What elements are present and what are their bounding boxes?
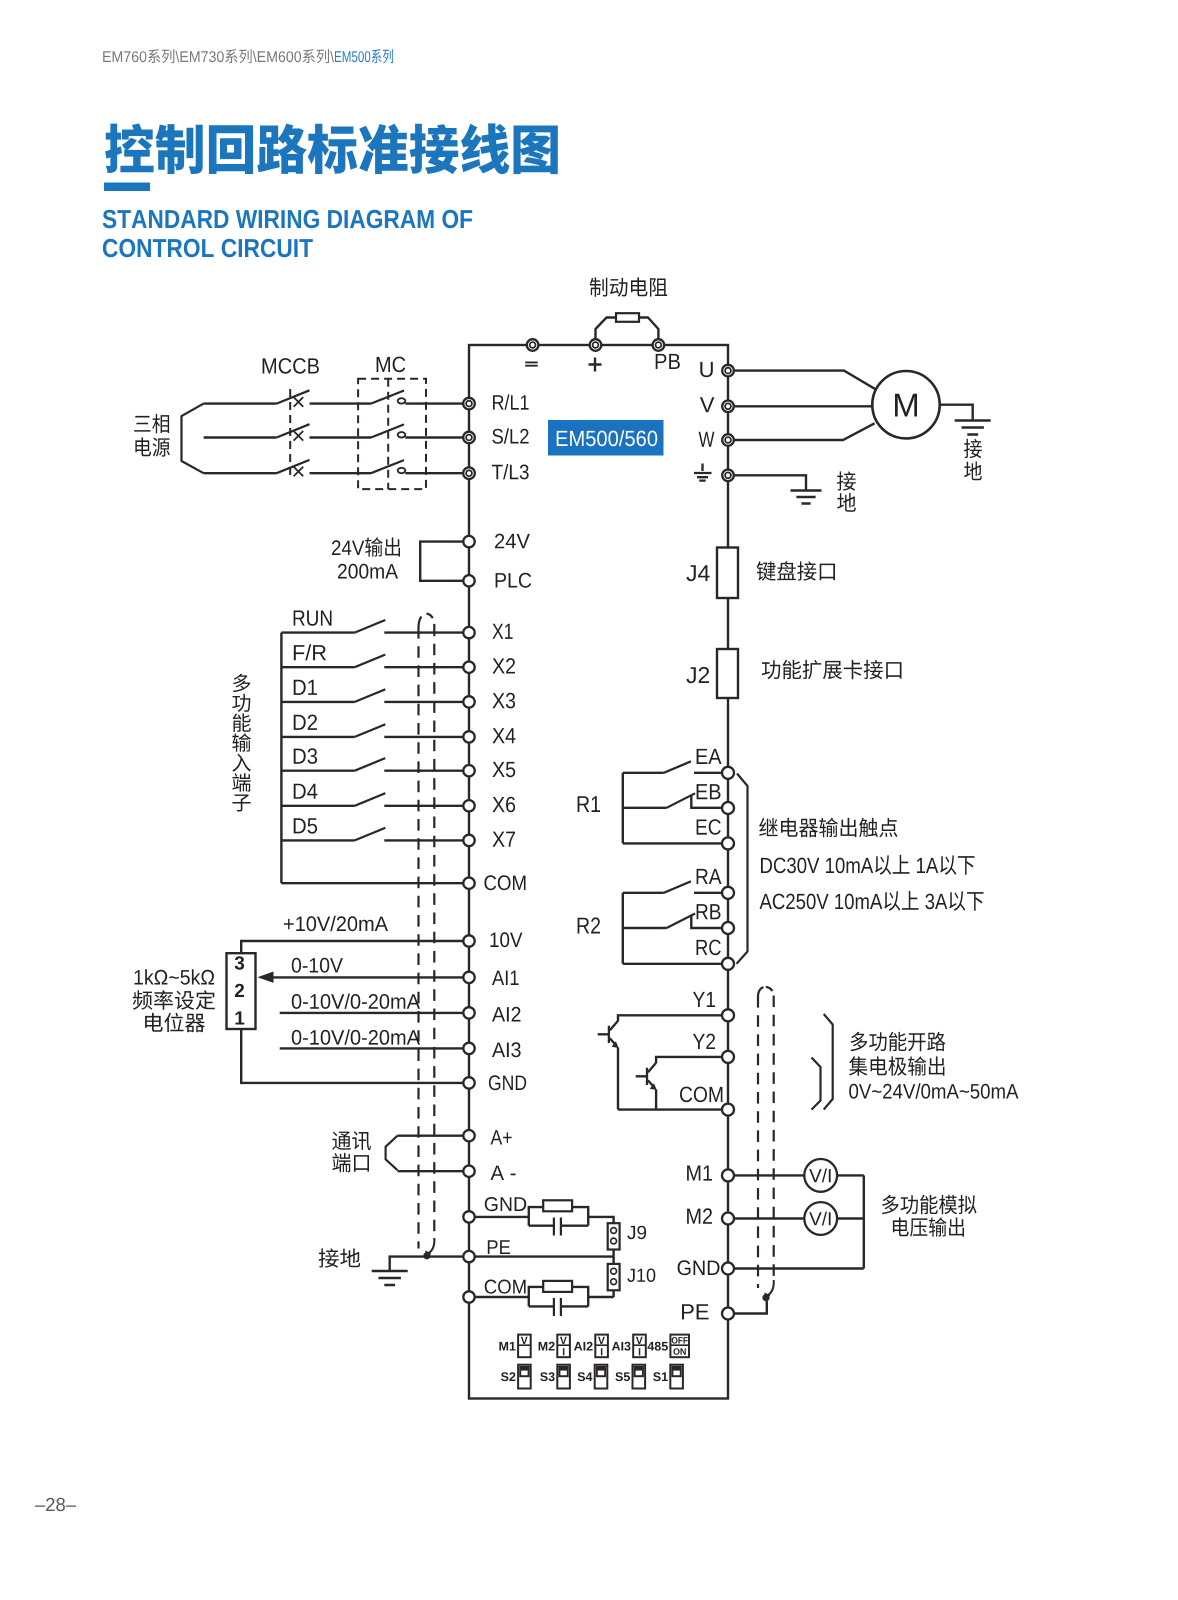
label X3 bbox=[492, 693, 515, 709]
terminal A- bbox=[463, 1166, 474, 1177]
label RUN bbox=[294, 611, 332, 626]
wire M1 to meter bbox=[734, 1174, 804, 1176]
switch D4 wire right bbox=[384, 805, 463, 807]
label D1 bbox=[294, 680, 317, 695]
subtitle line 2 bbox=[103, 239, 313, 257]
terminal PE right bbox=[722, 1308, 734, 1320]
terminal RC bbox=[722, 958, 734, 970]
keyboard port J4 bbox=[717, 548, 738, 599]
relay R1 common EC bbox=[623, 842, 722, 844]
wire Y2 to transistor Q2 bbox=[656, 1057, 722, 1063]
inverter enclosure box bbox=[469, 345, 728, 1399]
phase R MCCB breaker blade bbox=[277, 390, 310, 403]
wire motor to ground bbox=[940, 405, 973, 420]
terminal GND right bbox=[722, 1263, 734, 1275]
terminal U bbox=[722, 365, 734, 377]
label J9 bbox=[627, 1226, 646, 1240]
label 电压输出 bbox=[893, 1217, 964, 1236]
label U bbox=[700, 362, 713, 377]
label 24V bbox=[495, 534, 530, 549]
label 接地 output bbox=[837, 471, 856, 490]
label M2 bbox=[687, 1208, 712, 1223]
switch F/R wire left bbox=[281, 666, 354, 668]
label MC bbox=[377, 357, 406, 373]
phase R wire to terminal bbox=[405, 402, 463, 404]
terminal 24V bbox=[463, 536, 474, 547]
shield cable dashed right pair bbox=[758, 987, 766, 996]
wire COM filter to J10 bbox=[588, 1296, 613, 1298]
header series text gray part bbox=[103, 49, 334, 63]
terminal plus bbox=[590, 339, 602, 351]
PE ground symbol bbox=[372, 1271, 408, 1285]
motor M1 circle bbox=[872, 371, 939, 438]
label 集电极输出 bbox=[849, 1056, 944, 1075]
jumper J9 box bbox=[608, 1223, 620, 1249]
label F/R bbox=[294, 644, 326, 660]
wire AI1 with wiper arrow bbox=[270, 976, 463, 978]
wire PE right to shield dot bbox=[734, 1301, 767, 1314]
switch D2 wire left bbox=[281, 736, 354, 738]
shield right junction dot bbox=[762, 1294, 769, 1301]
digital input common bus bbox=[280, 633, 282, 884]
terminal X4 bbox=[463, 731, 474, 742]
wire M2 to meter bbox=[734, 1217, 804, 1219]
label GND comm bbox=[485, 1197, 526, 1211]
label RA bbox=[697, 869, 722, 884]
phase S wire to terminal bbox=[405, 436, 463, 438]
wire PE horizontal bbox=[475, 1255, 614, 1257]
label R1 bbox=[578, 796, 600, 812]
label 多功能输入端子 vertical bbox=[233, 674, 250, 692]
label minus bbox=[525, 362, 538, 365]
phase T wire left segment bbox=[204, 472, 277, 474]
DIP switch M2 bbox=[557, 1335, 570, 1358]
label S/L2 bbox=[492, 428, 528, 443]
terminal PE left bbox=[463, 1251, 474, 1262]
label COM bbox=[484, 875, 525, 890]
label GND analog bbox=[489, 1075, 526, 1090]
wire J10 to COM filter bbox=[612, 1290, 614, 1297]
label 接地 left bbox=[319, 1248, 361, 1267]
switch D5 blade bbox=[355, 828, 386, 841]
label PE right bbox=[682, 1304, 709, 1319]
terminal EB bbox=[722, 802, 734, 814]
label R/L1 bbox=[493, 394, 529, 409]
DIP switch M1 bbox=[518, 1335, 531, 1358]
label 0-10V/0-20mA AI2 bbox=[292, 994, 420, 1009]
terminal AI2 bbox=[463, 1007, 474, 1018]
wire filter to J9 bbox=[588, 1217, 613, 1223]
terminal COM left bbox=[463, 878, 474, 889]
title underline dash bbox=[104, 183, 150, 192]
switch D2 wire right bbox=[384, 736, 463, 738]
label 接地 motor bbox=[964, 439, 982, 458]
terminal AI3 bbox=[463, 1043, 474, 1054]
COM filter capacitor plates bbox=[554, 1298, 561, 1316]
terminal V bbox=[722, 401, 734, 413]
wire W to motor bbox=[728, 423, 875, 440]
label 多功能开路 bbox=[851, 1032, 946, 1052]
wire COM to filter bbox=[475, 1296, 529, 1298]
shield left hook to PE dot bbox=[429, 1238, 435, 1253]
wire GND to filter bbox=[475, 1216, 529, 1218]
GND filter loop bbox=[529, 1207, 588, 1226]
label X1 bbox=[492, 624, 512, 639]
relay R1 NO contact EA bbox=[623, 772, 664, 774]
label J10 bbox=[627, 1269, 655, 1283]
label 10V bbox=[490, 932, 522, 947]
switch RUN blade bbox=[355, 620, 386, 633]
phase T MC contact bbox=[398, 468, 406, 473]
terminal PB bbox=[653, 339, 665, 351]
open collector bracket outer bbox=[824, 1014, 833, 1110]
label V bbox=[700, 397, 715, 412]
label MCCB bbox=[263, 358, 319, 374]
terminal minus bbox=[527, 339, 539, 351]
relay group bracket bbox=[737, 774, 748, 964]
DIP switch S5 bbox=[633, 1365, 646, 1389]
phase T wire middle segment bbox=[310, 472, 372, 474]
label AI2 bbox=[492, 1007, 521, 1022]
phase S MC contact bbox=[398, 432, 406, 437]
switch D3 wire left bbox=[281, 770, 354, 772]
phase R wire middle segment bbox=[310, 402, 372, 404]
terminal X5 bbox=[463, 765, 474, 776]
terminal X6 bbox=[463, 800, 474, 811]
brake resistor label 制动电阻 bbox=[590, 277, 667, 296]
GND filter capacitor plates bbox=[554, 1218, 561, 1236]
label T/L3 bbox=[492, 464, 529, 479]
shield cable dashed left pair bbox=[419, 614, 427, 627]
label X5 bbox=[492, 762, 515, 777]
switch D5 wire right bbox=[384, 839, 463, 841]
wire AI3 bbox=[280, 1047, 464, 1049]
DIP switch S1 bbox=[670, 1365, 683, 1389]
label 电位器 bbox=[145, 1013, 205, 1032]
label DC30V rating bbox=[761, 855, 975, 875]
wire 10V to potentiometer bbox=[241, 941, 463, 953]
switch D3 wire right bbox=[384, 770, 463, 772]
MC linkage dashed line bbox=[387, 379, 389, 489]
GND filter resistor bbox=[543, 1200, 572, 1211]
phase T MCCB breaker blade bbox=[277, 460, 310, 473]
label AI1 bbox=[492, 971, 519, 985]
terminal COM right bbox=[722, 1104, 734, 1116]
subtitle line 1 bbox=[103, 210, 473, 229]
switch F/R blade bbox=[355, 655, 386, 668]
ground symbol right of terminal bbox=[791, 491, 822, 504]
DIP switch 485 bbox=[670, 1335, 689, 1358]
terminal COM comm bbox=[463, 1291, 474, 1302]
DIP switch S4 bbox=[595, 1365, 608, 1389]
three-phase bracket bbox=[182, 404, 204, 474]
wire meter2 to vertical bbox=[837, 1217, 864, 1219]
terminal X7 bbox=[463, 835, 474, 846]
phase R wire left segment bbox=[204, 402, 277, 404]
wire A- bbox=[398, 1170, 464, 1172]
wire Q1 emitter to COM bbox=[617, 1047, 619, 1109]
DIP switch AI3 bbox=[633, 1335, 646, 1358]
terminal T/L3 bbox=[463, 467, 475, 479]
terminal RA bbox=[722, 887, 734, 899]
transistor Q2 bbox=[636, 1063, 656, 1088]
expansion port J2 bbox=[717, 649, 738, 698]
COM filter loop bbox=[529, 1287, 588, 1307]
label AC250V rating bbox=[760, 891, 984, 911]
label RB bbox=[697, 904, 721, 919]
terminal X1 bbox=[463, 627, 474, 638]
label 继电器输出触点 bbox=[759, 818, 897, 837]
label J2 bbox=[686, 667, 709, 683]
wire V to motor bbox=[728, 405, 872, 407]
DIP switch S3 bbox=[557, 1365, 570, 1389]
phase S wire middle segment bbox=[310, 436, 372, 438]
label +10V/20mA bbox=[284, 916, 388, 931]
label PLC bbox=[496, 573, 532, 588]
shield right hook to PE dot bbox=[768, 1280, 774, 1295]
brake resistor body bbox=[616, 313, 639, 322]
page number bbox=[35, 1498, 76, 1512]
terminal S/L2 bbox=[463, 432, 475, 444]
label R2 bbox=[578, 917, 600, 933]
COM filter resistor bbox=[543, 1281, 572, 1292]
jumper J10 box bbox=[608, 1264, 620, 1290]
switch D3 blade bbox=[355, 758, 386, 771]
EM500/560 name plate bbox=[548, 420, 664, 456]
label EA bbox=[697, 749, 722, 764]
switch D1 blade bbox=[355, 689, 386, 702]
meter V/I lower bbox=[804, 1202, 837, 1235]
phase R MCCB x mark bbox=[294, 397, 304, 407]
label D3 bbox=[294, 748, 317, 764]
label 0V~24V/0mA~50mA bbox=[849, 1083, 1018, 1098]
terminal GND analog bbox=[463, 1077, 474, 1088]
terminal A+ bbox=[463, 1130, 474, 1141]
label COM right bbox=[680, 1087, 722, 1103]
label X4 bbox=[492, 728, 515, 743]
relay R1 bus bbox=[622, 773, 624, 844]
wire GND to pot pin1 bbox=[241, 1029, 463, 1083]
24V-PLC jumper wire bbox=[420, 542, 463, 581]
terminal W bbox=[722, 434, 734, 446]
phase S MCCB x mark bbox=[294, 431, 304, 441]
label 200mA bbox=[338, 564, 398, 579]
label X2 bbox=[492, 658, 515, 673]
label 通讯端口 bbox=[332, 1131, 371, 1150]
label 0-10V bbox=[292, 958, 343, 973]
switch D1 wire left bbox=[281, 701, 354, 703]
terminal M1 bbox=[722, 1169, 734, 1181]
phase S MC contact blade bbox=[371, 424, 404, 437]
phase T wire to terminal bbox=[405, 472, 463, 474]
relay R2 NO contact RA bbox=[623, 892, 664, 894]
wire ground terminal bbox=[728, 475, 806, 489]
MC contactor dashed box bbox=[358, 379, 426, 489]
wire A+ bbox=[398, 1134, 464, 1136]
terminal Y2 bbox=[722, 1051, 734, 1063]
open collector bracket inner bbox=[812, 1058, 821, 1110]
label A- bbox=[491, 1166, 516, 1180]
phase S wire left segment bbox=[204, 436, 277, 438]
wire PE to ground bbox=[390, 1257, 464, 1271]
terminal M2 bbox=[722, 1213, 734, 1225]
page title Chinese bbox=[105, 123, 558, 174]
label A+ bbox=[491, 1130, 512, 1144]
phase T MCCB x mark bbox=[294, 467, 304, 477]
header series text blue part bbox=[335, 49, 393, 63]
transistor Q1 bbox=[598, 1021, 618, 1046]
label EB bbox=[697, 784, 721, 799]
switch D5 wire left bbox=[281, 839, 354, 841]
terminal 10V bbox=[463, 935, 474, 946]
switch D2 blade bbox=[355, 724, 386, 737]
comm port bracket bbox=[386, 1136, 398, 1171]
label PB bbox=[656, 354, 680, 369]
label AI3 bbox=[492, 1042, 521, 1057]
label EC bbox=[697, 819, 721, 835]
wire GND right bbox=[734, 1267, 864, 1269]
terminal EC bbox=[722, 837, 734, 849]
potentiometer body bbox=[227, 953, 256, 1029]
relay R2 bus bbox=[622, 893, 624, 964]
label 频率设定 bbox=[133, 990, 215, 1010]
terminal RB bbox=[722, 922, 734, 934]
label D4 bbox=[294, 784, 318, 799]
relay R1 NC contact EB bbox=[623, 807, 667, 809]
terminal R/L1 bbox=[463, 398, 475, 410]
wire J9 to PE wire bbox=[612, 1250, 614, 1257]
label D5 bbox=[294, 818, 317, 833]
phase R MC contact blade bbox=[371, 391, 404, 404]
label GND right bbox=[678, 1260, 720, 1275]
wire meter1 to vertical bbox=[837, 1174, 864, 1176]
switch F/R wire right bbox=[384, 666, 463, 668]
phase S MCCB breaker blade bbox=[277, 424, 310, 437]
terminal AI1 bbox=[463, 972, 474, 983]
ground glyph at terminal bbox=[694, 464, 712, 481]
meter V/I upper bbox=[804, 1159, 837, 1192]
wire Q2 emitter to COM bbox=[655, 1089, 657, 1109]
wire J10 from PE bbox=[612, 1257, 614, 1264]
wire AI2 bbox=[280, 1012, 464, 1014]
terminal Y1 bbox=[722, 1009, 734, 1021]
phase T MC contact blade bbox=[371, 460, 404, 473]
DIP switch S2 bbox=[518, 1365, 531, 1389]
label plus bbox=[589, 358, 602, 372]
switch D4 wire left bbox=[281, 805, 354, 807]
label 键盘接口 bbox=[757, 561, 836, 581]
label 0-10V/0-20mA AI3 bbox=[292, 1029, 420, 1044]
terminal EA bbox=[722, 767, 734, 779]
DIP switch AI2 bbox=[595, 1335, 608, 1358]
label M1 bbox=[687, 1166, 712, 1181]
wire + to brake resistor bbox=[596, 318, 617, 341]
label J4 bbox=[686, 565, 709, 581]
label X7 bbox=[492, 832, 515, 847]
switch RUN wire left bbox=[281, 631, 354, 633]
label COM comm bbox=[485, 1280, 526, 1294]
relay R2 common RC bbox=[623, 963, 722, 965]
wire Y1 to transistor Q1 bbox=[618, 1015, 722, 1021]
label Y2 bbox=[693, 1034, 715, 1049]
COM wire bbox=[281, 882, 463, 884]
switch RUN wire right bbox=[384, 631, 463, 633]
label RC bbox=[697, 940, 721, 956]
wire COM right horizontal bbox=[618, 1108, 722, 1110]
switch D1 wire right bbox=[384, 701, 463, 703]
terminal X3 bbox=[463, 696, 474, 707]
label X6 bbox=[492, 797, 515, 813]
label 三相电源 bbox=[134, 414, 169, 433]
meters common vertical wire bbox=[863, 1175, 865, 1268]
MCCB linkage dashed line bbox=[289, 389, 291, 477]
wire brake resistor to PB bbox=[639, 318, 658, 341]
ground terminal bbox=[722, 470, 734, 482]
label PE left bbox=[488, 1240, 510, 1254]
label 24V输出 bbox=[332, 537, 400, 556]
wire U to motor bbox=[728, 371, 875, 390]
motor ground symbol bbox=[955, 421, 991, 435]
switch D4 blade bbox=[355, 793, 386, 806]
label D2 bbox=[294, 715, 317, 730]
terminal X2 bbox=[463, 662, 474, 673]
shield left junction dot bbox=[423, 1252, 430, 1259]
terminal GND comm bbox=[463, 1211, 474, 1222]
label Y1 bbox=[693, 992, 715, 1007]
label 多功能模拟 bbox=[882, 1195, 977, 1214]
label W bbox=[699, 432, 715, 447]
terminal PLC bbox=[463, 575, 474, 586]
relay R2 NC contact RB bbox=[623, 927, 667, 929]
label 1kΩ~5kΩ bbox=[135, 969, 215, 984]
label 功能扩展卡接口 bbox=[762, 660, 902, 680]
phase R MC contact bbox=[398, 398, 406, 403]
